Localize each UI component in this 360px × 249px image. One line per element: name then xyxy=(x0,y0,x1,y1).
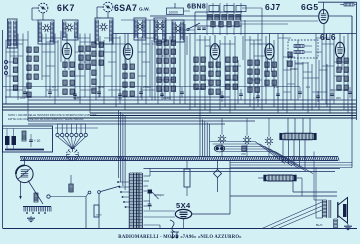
wire transformer secondary leads xyxy=(144,169,176,229)
resistor top-right xyxy=(340,3,357,6)
wire left frame xyxy=(2,30,4,228)
svg-text:6BN8: 6BN8 xyxy=(187,4,206,11)
IF1 coil can A xyxy=(134,18,146,40)
note line1 xyxy=(8,113,97,117)
wire grid cap 6SA7 xyxy=(97,7,108,18)
IF/RC cluster 2 xyxy=(27,47,39,61)
component value labels xyxy=(20,67,341,100)
power transformer xyxy=(129,173,142,229)
IF/RC cluster 6 xyxy=(79,46,91,69)
wire bus y104 xyxy=(3,103,357,105)
IF/RC cluster 17 xyxy=(288,52,292,66)
capacitor 10000pF switch xyxy=(94,205,102,217)
wire lower right bus xyxy=(230,120,352,168)
IF/RC cluster 8 xyxy=(92,70,96,93)
wire top-right frame xyxy=(318,1,357,3)
svg-text:NOTA: I VALORI DELLE TENSIONI: NOTA: I VALORI DELLE TENSIONI INDICATE S… xyxy=(8,113,97,117)
wire speaker connections xyxy=(314,152,322,219)
resistor 10000 xyxy=(167,3,191,15)
IF/RC cluster 4 xyxy=(27,83,31,97)
svg-text:6J7: 6J7 xyxy=(265,2,281,12)
wire bus y115 xyxy=(90,115,356,117)
aerial-earth terminals xyxy=(4,60,7,74)
IF/RC cluster 5 xyxy=(63,62,75,94)
wire 6SA7 leads xyxy=(126,34,130,71)
svg-text:G.W.: G.W. xyxy=(139,7,150,13)
trimmer tone 2 xyxy=(243,118,251,157)
wire drops to wirewound xyxy=(288,118,310,133)
tube V5 6J7 xyxy=(265,44,274,60)
power switch xyxy=(86,186,120,229)
oscillator coil can xyxy=(95,18,113,44)
wire 6G5 bottom leads xyxy=(240,21,324,40)
bypass capacitors xyxy=(23,87,352,102)
IF/RC cluster 11 xyxy=(157,68,176,91)
resistor on diagonal xyxy=(34,193,38,202)
label tube 5X4 xyxy=(176,201,191,210)
wire bus y124 xyxy=(28,123,225,125)
caption xyxy=(118,235,242,240)
svg-text:BL/C: BL/C xyxy=(316,223,324,227)
ground speaker xyxy=(344,220,352,230)
wire bus y110 xyxy=(3,109,357,111)
svg-text:50000: 50000 xyxy=(196,87,204,91)
IF2 coil can xyxy=(172,20,184,42)
tuning condenser xyxy=(16,165,33,182)
wire 6G5 plate xyxy=(328,16,352,120)
IF/RC cluster 1 xyxy=(13,58,17,90)
output transformer xyxy=(322,200,331,218)
trimmer grid-cap 6K7 xyxy=(38,3,48,13)
resistor switch xyxy=(69,175,73,193)
wire condenser diag xyxy=(28,181,43,205)
wire 6K7 leads xyxy=(65,34,69,71)
IF/RC cluster 15 xyxy=(248,60,260,92)
svg-text:6K7: 6K7 xyxy=(57,3,75,13)
svg-text:25000: 25000 xyxy=(143,85,151,89)
wire bundle IF out xyxy=(200,118,210,157)
label tube 6L6 xyxy=(320,32,336,42)
svg-text:470: 470 xyxy=(20,96,25,100)
label BLC xyxy=(316,223,324,227)
heater pins xyxy=(55,124,98,137)
chassis bus band xyxy=(20,157,339,161)
label tube 6SA7GW xyxy=(114,3,150,13)
svg-text:0,1: 0,1 xyxy=(118,96,122,100)
trimmer tone 1 xyxy=(218,118,226,157)
resistor box near 6G5 xyxy=(288,40,318,58)
IF/RC cluster 18 xyxy=(337,58,349,90)
wire osc to 6J7 xyxy=(242,8,262,16)
label tube 6G5 xyxy=(301,2,319,12)
svg-text:FATTE CON VOLTMETRO DA 1000 OH: FATTE CON VOLTMETRO DA 1000 OHM/VOLT VER… xyxy=(8,117,84,121)
wire 6BN8 leads xyxy=(213,35,217,72)
note line2 xyxy=(8,117,84,121)
oscillator top components xyxy=(195,3,246,35)
antenna coil can xyxy=(38,20,54,44)
ground comb xyxy=(27,216,35,222)
wire top bus 2 xyxy=(121,19,207,21)
wire bus y100 xyxy=(28,99,356,101)
IF/RC cluster 7 xyxy=(92,42,104,65)
IF/RC cluster 14 xyxy=(226,57,238,89)
field winding xyxy=(334,219,338,229)
socket bottom view xyxy=(67,149,79,161)
svg-text:5X4: 5X4 xyxy=(176,201,191,210)
terminal circle xyxy=(47,195,86,198)
capacitor 4000pF xyxy=(148,190,165,200)
svg-text:10000: 10000 xyxy=(163,96,171,100)
capacitor below 4000pF xyxy=(148,194,152,211)
wire right verticals xyxy=(230,180,337,196)
wire grid cap 6K7 xyxy=(32,8,43,20)
svg-text:RADIOMARELLI - MODD «7A96»: RADIOMARELLI - MODD «7A96» «NILO AZZURRO… xyxy=(118,235,242,240)
wire bus y107 xyxy=(3,106,357,108)
svg-text:0,1: 0,1 xyxy=(306,85,310,89)
wire condenser arm xyxy=(19,182,21,200)
jack diamond xyxy=(214,161,222,192)
wire top bus to 6G5 xyxy=(150,15,318,17)
svg-text:6G5: 6G5 xyxy=(301,2,319,12)
loudspeaker xyxy=(338,198,348,224)
IF/RC cluster 13 xyxy=(209,62,221,94)
aerial coil can xyxy=(8,19,18,48)
wire bus y33 xyxy=(113,33,356,35)
wire verticals top half xyxy=(6,16,352,121)
potentiometer comb xyxy=(23,207,51,214)
trimmer tone 3 xyxy=(265,118,273,157)
wires from wirewound xyxy=(283,140,305,168)
wirewound resistor lower xyxy=(263,175,296,182)
RF coil can xyxy=(63,20,79,40)
svg-text:6SA7: 6SA7 xyxy=(114,3,137,13)
wire horizontal links xyxy=(6,30,348,92)
capacitor 10000pF mains xyxy=(184,161,190,196)
svg-text:20000: 20000 xyxy=(290,67,298,71)
wire bus y113 xyxy=(90,112,356,114)
tube V2 6SA7 xyxy=(123,44,132,60)
svg-text:250: 250 xyxy=(336,96,341,100)
tube V1 6K7 xyxy=(62,43,71,59)
svg-text:+ 20: + 20 xyxy=(34,139,41,143)
svg-text:300: 300 xyxy=(225,83,230,87)
IF/RC cluster 9 xyxy=(123,64,135,96)
tube V3 6BN8 xyxy=(210,44,219,60)
svg-text:1 M: 1 M xyxy=(274,85,279,89)
wire bundle to transformer xyxy=(119,110,126,190)
svg-text:10000: 10000 xyxy=(169,10,178,14)
IF/RC cluster 12 xyxy=(194,57,206,89)
label tube 6J7 xyxy=(265,2,281,12)
wire bus y97 xyxy=(5,96,230,98)
bandswitch contact xyxy=(187,23,200,31)
IF/RC cluster 16 xyxy=(265,62,277,85)
wire 6G5 top xyxy=(323,2,325,9)
wire 6L6 leads xyxy=(338,34,342,71)
wire y168 pair xyxy=(144,169,341,172)
svg-text:5000: 5000 xyxy=(98,85,105,89)
wire wirewound lower leads xyxy=(258,178,302,196)
wire 6J7 leads xyxy=(268,34,272,73)
wirewound resistor upper xyxy=(279,133,316,140)
twin gang oval xyxy=(214,145,224,152)
rectifier 5X4 xyxy=(175,161,230,229)
wire bus y86 xyxy=(3,86,301,88)
wire condenser top xyxy=(24,157,26,166)
svg-text:50000: 50000 xyxy=(73,96,81,100)
wire right frame xyxy=(356,2,358,120)
wire diagonals to output xyxy=(210,142,313,174)
tube V4 6G5 magic eye xyxy=(319,10,329,24)
IF/RC cluster 10 xyxy=(157,40,176,63)
svg-text:470: 470 xyxy=(241,152,246,156)
IF/RC cluster 3 xyxy=(27,65,39,79)
mains plug xyxy=(170,220,179,239)
trimmer grid-cap 6SA7 xyxy=(103,2,113,12)
label tube 6K7 xyxy=(57,3,75,13)
IF1 coil can B xyxy=(154,18,166,42)
wires pins to socket xyxy=(58,137,86,149)
svg-text:4000pF: 4000pF xyxy=(154,193,164,197)
svg-text:0,5: 0,5 xyxy=(253,96,257,100)
tube V6 6L6 xyxy=(335,42,344,58)
svg-text:0,1: 0,1 xyxy=(52,85,56,89)
wires selector to transformer xyxy=(117,181,130,208)
wire bus y121 xyxy=(28,120,255,122)
filter capacitor box xyxy=(3,126,53,152)
wire speaker diagonals xyxy=(262,202,322,229)
svg-text:10000: 10000 xyxy=(96,215,103,217)
wire bus y118 xyxy=(28,117,356,119)
label tube 6BN8 xyxy=(187,4,206,11)
resistor 470 unit xyxy=(241,146,246,156)
wire bottom frame xyxy=(3,228,358,230)
